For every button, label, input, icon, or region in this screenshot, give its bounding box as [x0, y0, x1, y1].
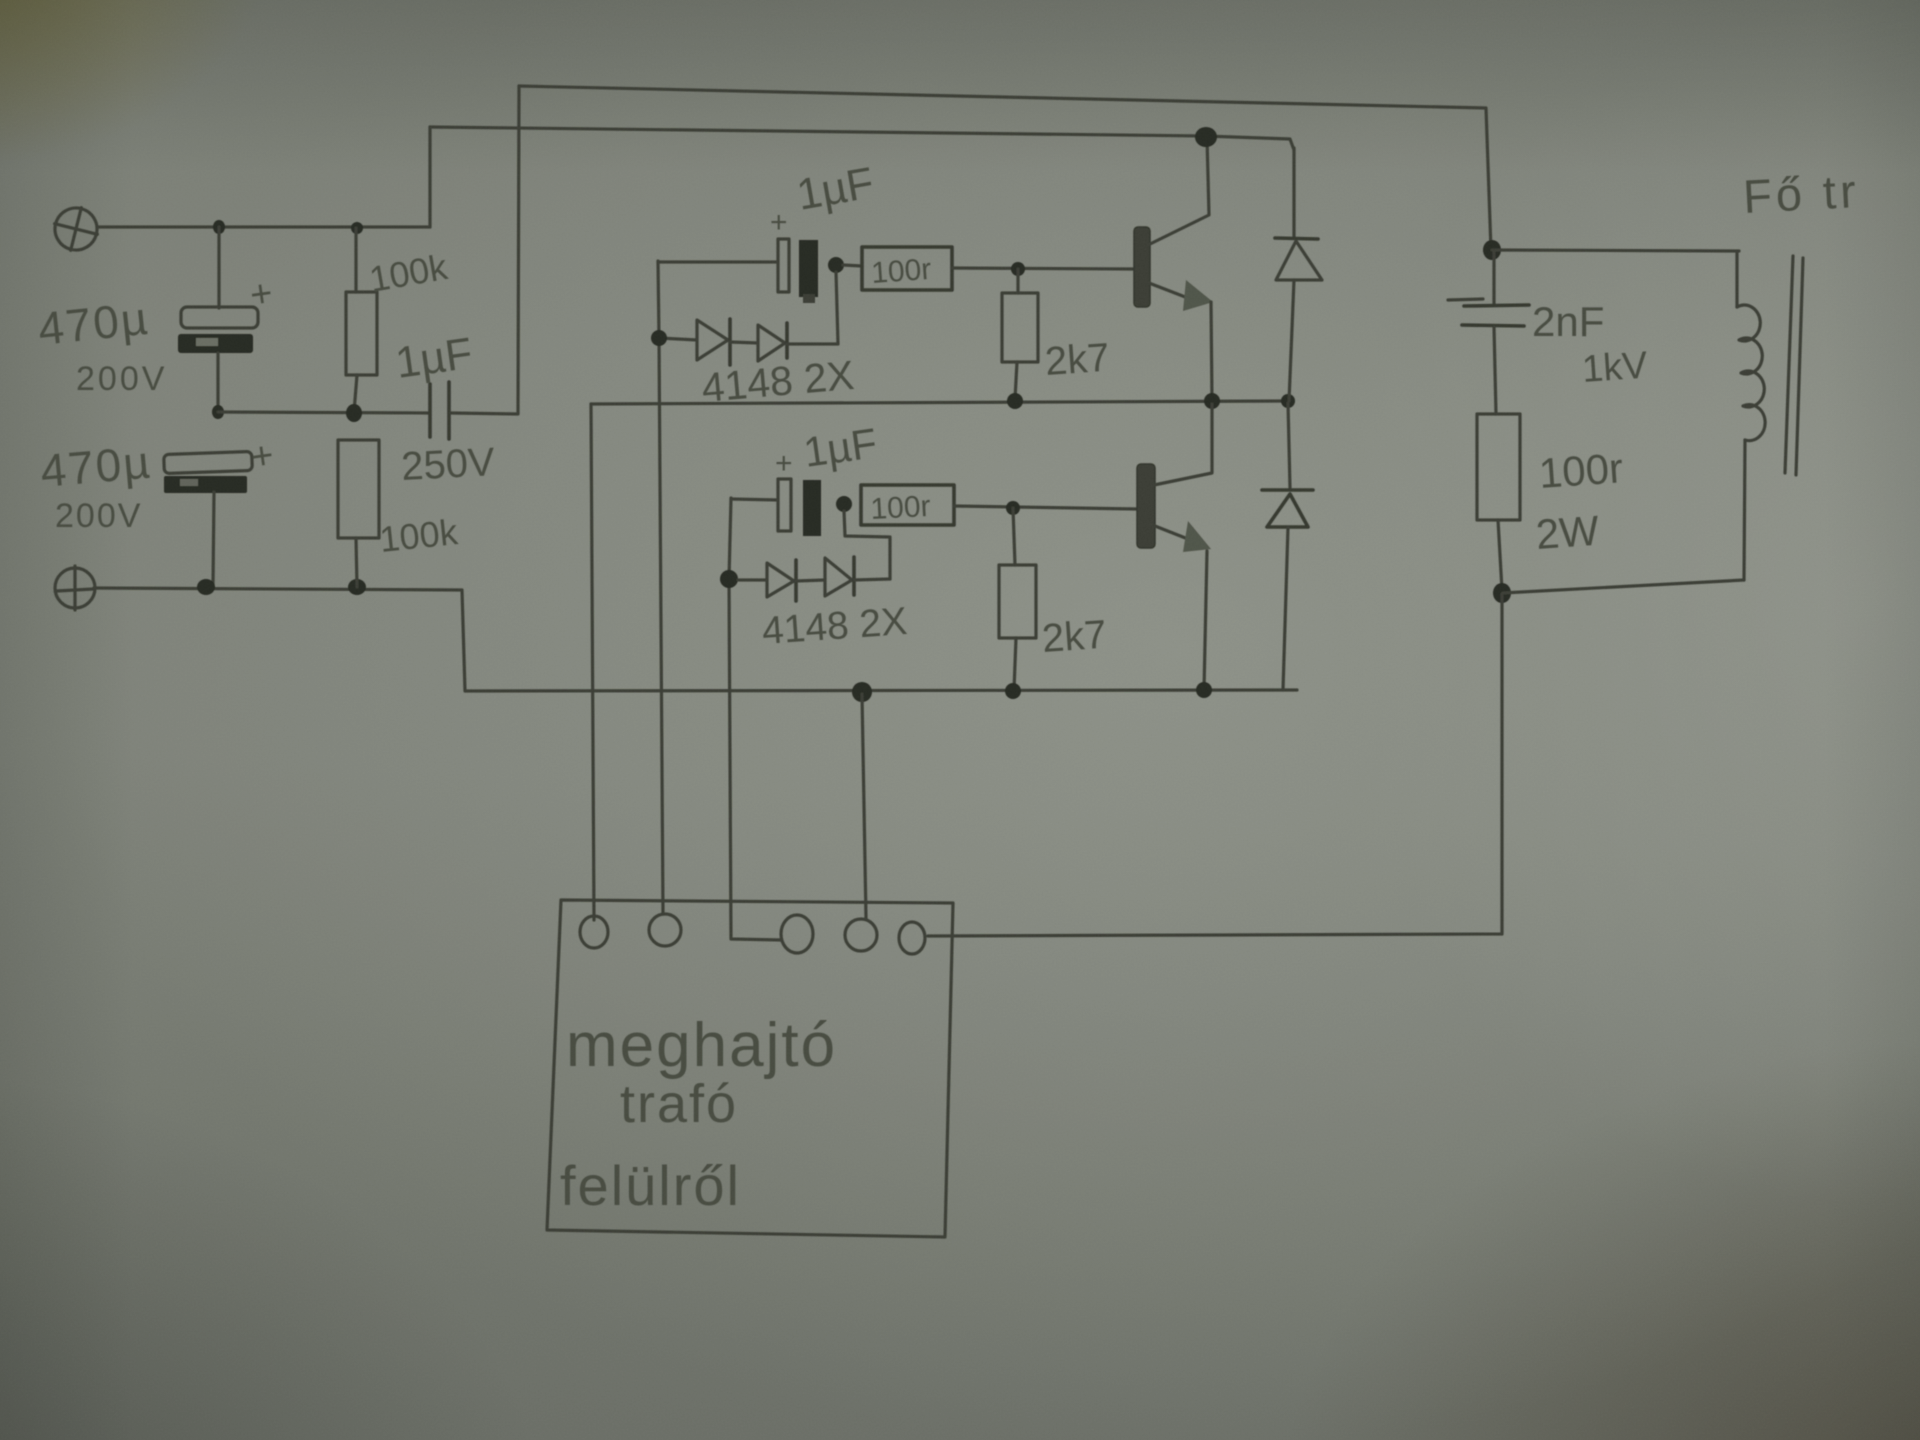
- node dot H base node: [1011, 262, 1025, 276]
- wire R5 to Q2 base: [954, 506, 1137, 509]
- stage2 wire stub to C5: [731, 499, 778, 500]
- driver transformer box: [547, 900, 953, 1237]
- wire top from J1 to corner: [97, 225, 430, 228]
- resistor R4 2k7 body: [1002, 293, 1038, 362]
- wire D2 right up to node G: [787, 272, 838, 344]
- wire C6 down to R7: [1494, 327, 1496, 414]
- transistor Q2 base bar: [1137, 464, 1155, 548]
- wire node G to R3 box: [843, 265, 862, 266]
- node dot F between resistors: [346, 404, 362, 422]
- node dot O base node 2: [1006, 501, 1020, 515]
- wire node U right to transformer bottom: [1503, 580, 1744, 593]
- wire R3 to Q1 base: [952, 268, 1134, 269]
- wire R7 down to node U: [1498, 520, 1502, 590]
- node dot E on bottom wire: [348, 579, 366, 595]
- node dot M midline right end: [1281, 394, 1295, 408]
- resistor R6 2k7 body: [999, 565, 1036, 638]
- capacitor C4 1uF plates: [778, 239, 818, 303]
- resistor R1 100k body: [346, 292, 377, 375]
- transformer L1 primary winding: [1737, 252, 1765, 580]
- node dot T right top node: [1483, 240, 1501, 260]
- node dot B: [351, 222, 363, 234]
- transistor Q2 collector: [1154, 404, 1212, 485]
- wire node T to transformer top: [1492, 250, 1739, 251]
- wire R6 down to bottom rail: [1014, 638, 1016, 690]
- stage1 left wire down to trafo terminal T2: [658, 261, 663, 914]
- wire node O down to R6: [1013, 508, 1015, 565]
- wire node I to D1: [659, 338, 697, 340]
- capacitor C2 470u 200V electrolytic plates: [164, 451, 253, 493]
- capacitor C5 1uF plates: [778, 479, 821, 536]
- wire node T down to C6: [1492, 252, 1495, 305]
- node dot U right bottom node: [1493, 583, 1511, 603]
- trafo terminal T2: [649, 914, 681, 946]
- node dot G after C4: [828, 257, 844, 273]
- wire midline left end down to trafo terminal T1: [591, 404, 594, 920]
- node dot Q bottom rail emitter: [1196, 682, 1212, 698]
- stage2 left wire down to trafo terminal T3: [729, 498, 781, 940]
- wire C3 right up to line1: [451, 86, 519, 414]
- diode D3 top right vertical: [1275, 148, 1322, 401]
- wire node B to R1: [354, 228, 357, 292]
- trafo terminal T4: [845, 919, 877, 951]
- node dot N after C5: [836, 496, 852, 512]
- trafo terminal T5: [899, 922, 925, 954]
- wire node C to resistor node: [218, 412, 428, 413]
- trafo terminal T1: [580, 916, 608, 948]
- node dot R bottom rail 2k7: [1005, 683, 1021, 699]
- wire corner up to line2: [428, 127, 431, 227]
- capacitor C6 2nF plates: [1448, 299, 1529, 326]
- wire C2 down to bottom wire: [213, 492, 214, 586]
- transistor Q1 emitter with arrow: [1149, 280, 1213, 401]
- node dot S bottom rail to T4: [852, 682, 872, 702]
- wire R4 down to midline: [1015, 362, 1017, 399]
- wire R2 to bottom node E: [356, 538, 357, 587]
- bottom wire from J2 with step: [94, 588, 1297, 691]
- resistor R2 100k body: [338, 440, 379, 538]
- transistor Q2 emitter with arrow: [1155, 521, 1211, 690]
- node dot K midline 2k7: [1007, 393, 1023, 409]
- wire C1 to node C: [216, 353, 219, 412]
- resistor R3 100r box: [862, 247, 952, 290]
- wire R1 to node F: [354, 375, 357, 412]
- wire midline: [591, 401, 1288, 404]
- transistor Q1 base bar: [1134, 227, 1150, 307]
- node dot A: [213, 220, 225, 234]
- wire node N down right to diode row: [844, 511, 890, 579]
- transistor Q1 collector: [1148, 138, 1209, 245]
- node dot I on stage1 left wire: [651, 330, 667, 346]
- wire line1 topmost: [519, 86, 1491, 250]
- node dot J top line2 collector: [1195, 127, 1217, 147]
- wire node U down to trafo terminal T5: [928, 594, 1502, 936]
- resistor R7 100r body: [1477, 414, 1520, 520]
- diode D5 1n4148 b: [796, 557, 890, 596]
- wire node S down to trafo terminal T4: [862, 694, 866, 918]
- trafo terminal T3: [781, 915, 813, 953]
- capacitor C3 1uF 250V plates: [430, 382, 449, 439]
- node dot D on bottom wire: [197, 579, 215, 595]
- diode D6 bottom right vertical: [1262, 403, 1313, 690]
- resistor R5 100r box: [861, 485, 954, 525]
- node dot C mid caps: [212, 405, 224, 419]
- diode D4 1n4148 a: [738, 560, 796, 601]
- transformer core lines: [1785, 256, 1803, 475]
- stage1 wire stub to C4: [658, 260, 778, 263]
- terminal J2 ground: [55, 566, 95, 610]
- terminal J1 plus input: [49, 202, 102, 255]
- wire J1 down to C1: [217, 227, 220, 308]
- diode D2 1n4148 b: [730, 323, 787, 361]
- wire line2 top horizontal: [430, 127, 1294, 150]
- diode D1 1n4148 a: [697, 319, 730, 365]
- wire node H down to R4: [1016, 269, 1019, 293]
- node dot L midline emitter: [1204, 393, 1220, 409]
- capacitor C1 470u 200V electrolytic plates: [178, 307, 258, 353]
- node dot P on stage2 left wire: [720, 570, 738, 588]
